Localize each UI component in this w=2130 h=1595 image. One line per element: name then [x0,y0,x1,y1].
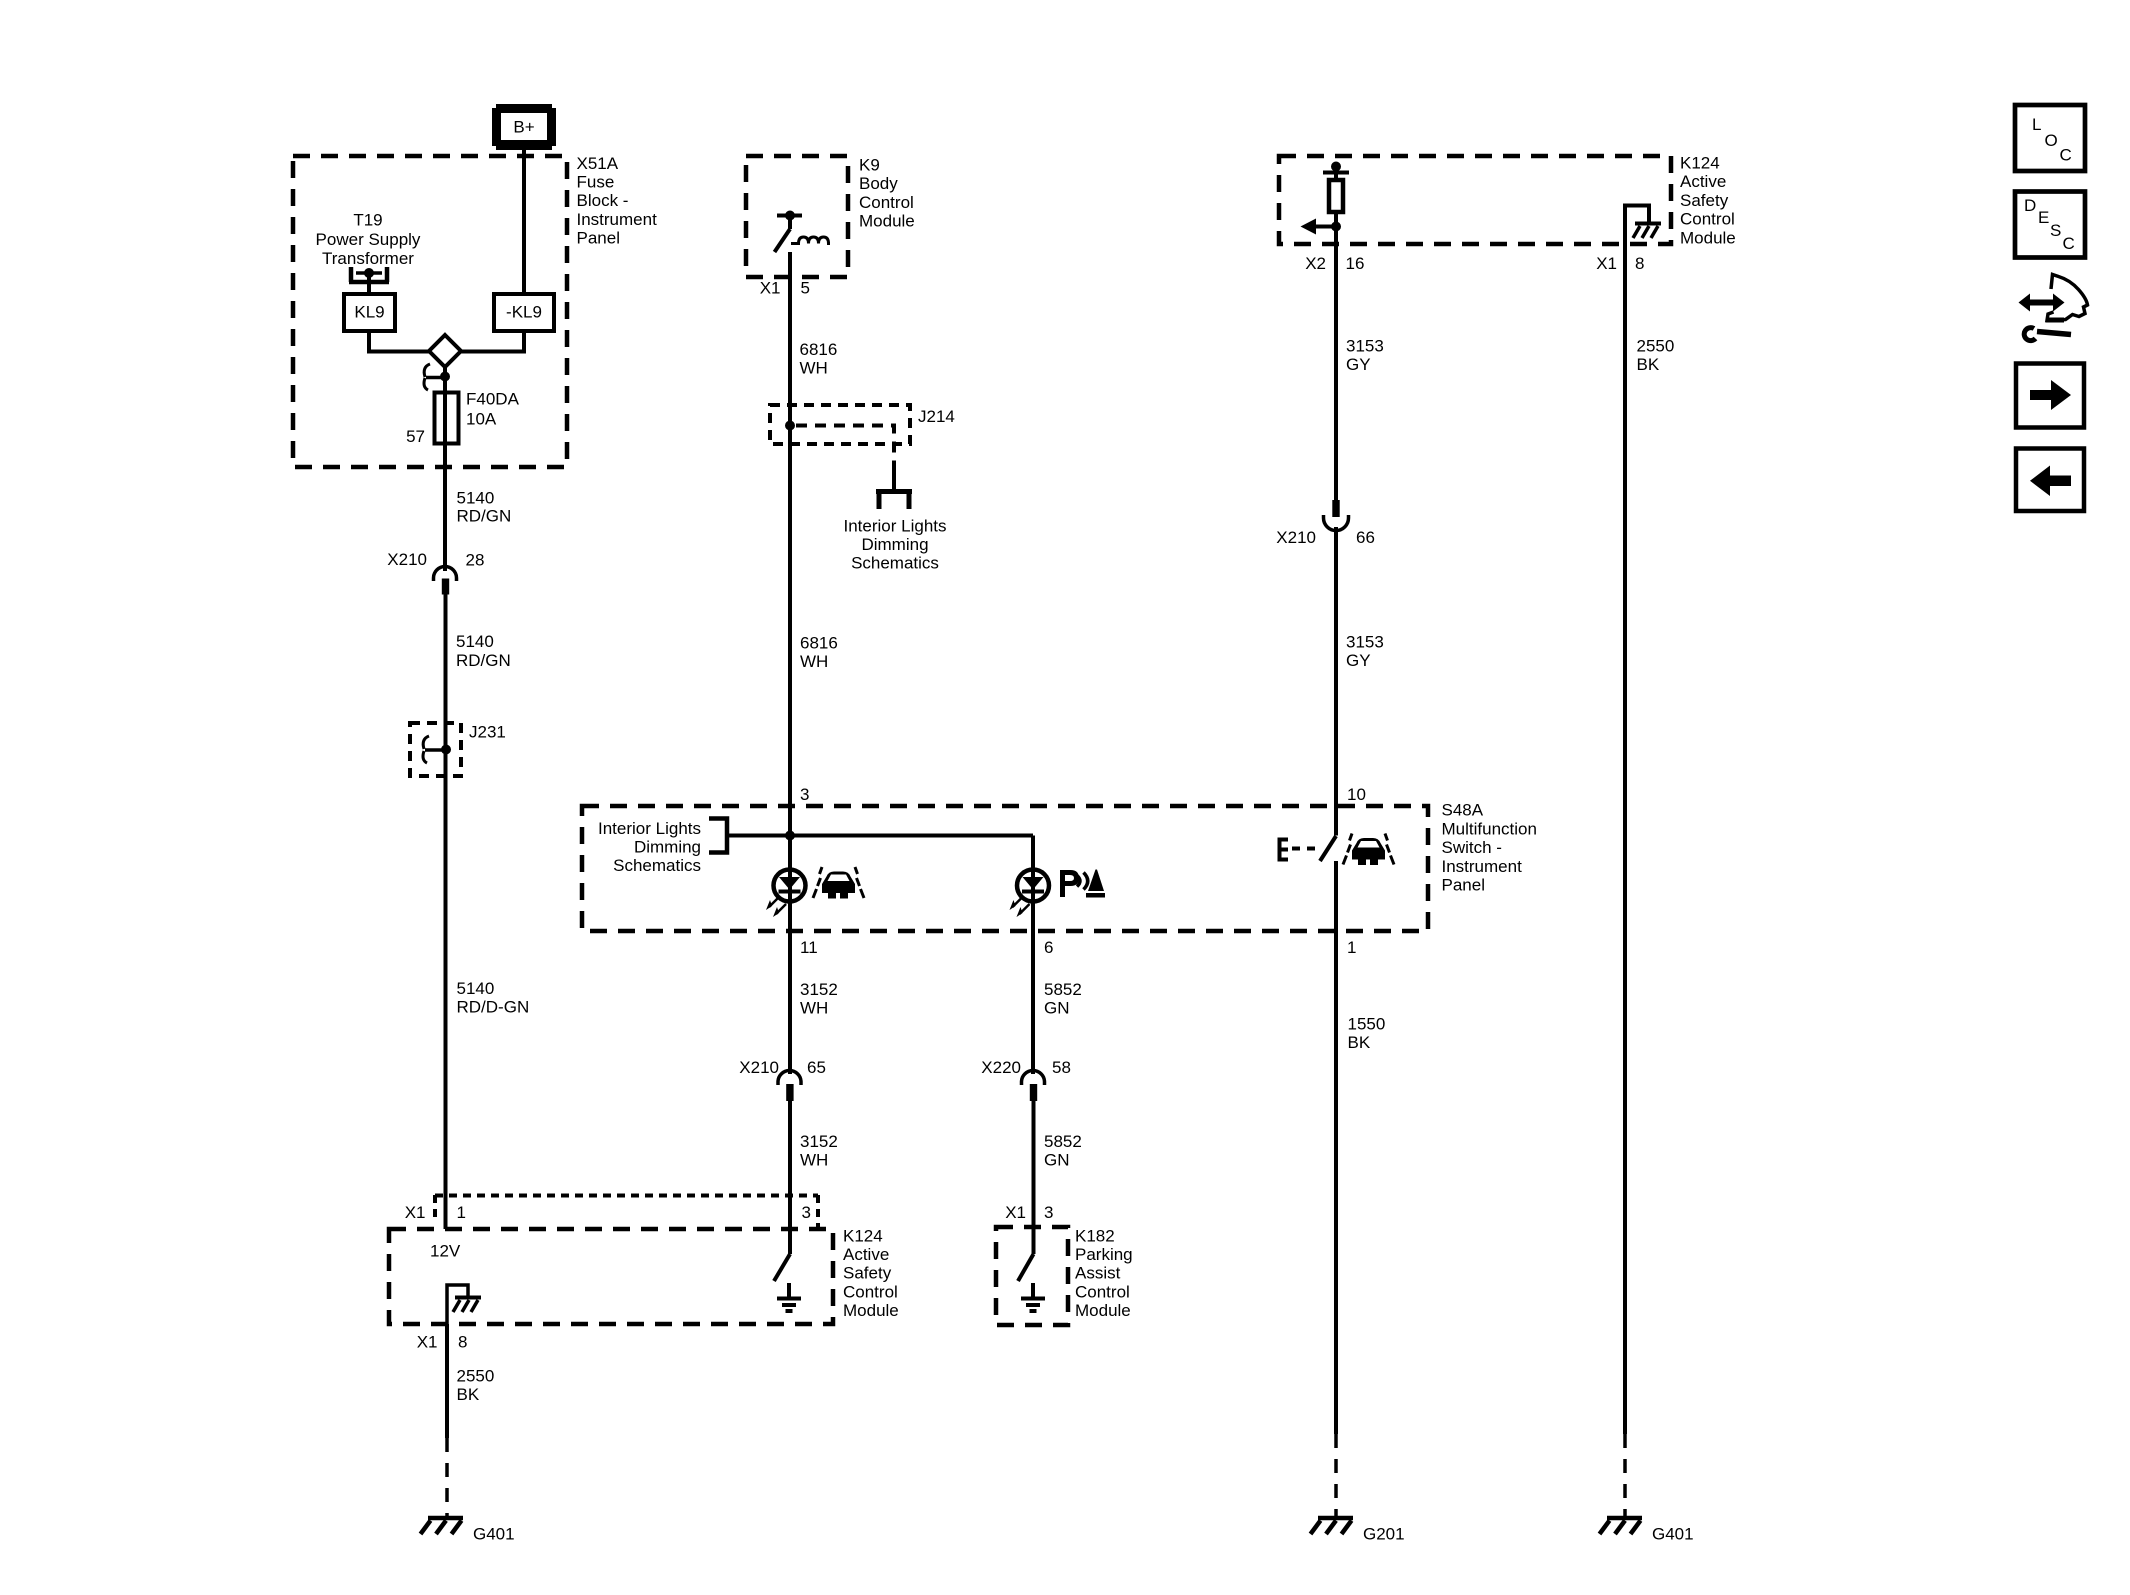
wire 6816 WH from K9 to X210-65 [788,252,792,1074]
svg-text:S: S [2050,221,2061,240]
svg-text:X1: X1 [1005,1203,1026,1222]
wire 5852 GN upper [1031,931,1035,1074]
K182 internal switch to ground [1018,1227,1034,1281]
splice J231 dashed box [410,723,461,776]
S48A label [1442,801,1537,895]
svg-text:6: 6 [1044,938,1053,957]
svg-text:12V: 12V [430,1242,461,1261]
svg-text:BK: BK [1348,1033,1371,1052]
svg-text:J231: J231 [469,723,506,742]
svg-text:X210: X210 [739,1058,779,1077]
svg-text:X220: X220 [981,1058,1021,1077]
svg-text:Block -: Block - [577,191,629,210]
svg-text:WH: WH [800,358,828,377]
S48A multifunction switch dashed box [582,806,1428,931]
splice clip J231 [423,736,446,763]
svg-text:Schematics: Schematics [851,554,939,573]
wire 3153 GY upper [1334,244,1338,500]
bracket for dimming reference [709,819,727,853]
svg-text:16: 16 [1346,254,1365,273]
svg-text:K9: K9 [859,156,880,175]
switch actuator bracket [1280,840,1289,860]
wire X210-28 down to K124 [444,594,448,1229]
svg-text:X1: X1 [405,1203,426,1222]
inline connector X220 pin 58 [981,1058,1071,1101]
svg-text:C: C [2063,234,2075,253]
svg-text:GN: GN [1044,1151,1070,1170]
off-page fork to interior lights dimming schematics [876,468,912,509]
wire from B+ down to -KL9 [522,150,526,296]
svg-text:5140: 5140 [457,979,495,998]
svg-text:Safety: Safety [843,1264,892,1283]
svg-text:J214: J214 [918,407,955,426]
fuse F40DA 10A [435,393,459,444]
LED indicator (parking assist) [1010,870,1050,918]
transformer T19 symbol [349,267,389,296]
K124 label (top right) [1680,154,1736,248]
svg-text:5140: 5140 [456,632,494,651]
splice junction dot J231 [441,745,451,755]
X51A label [577,154,658,247]
svg-text:X1: X1 [1596,254,1617,273]
K124 internal chassis ground link [1625,206,1649,1435]
svg-text:K182: K182 [1075,1227,1115,1246]
svg-text:Panel: Panel [1442,876,1485,895]
dashed wire to G401 [445,1438,449,1516]
svg-text:3153: 3153 [1346,337,1384,356]
diamond distribution node [429,335,461,367]
svg-text:8: 8 [458,1333,467,1352]
svg-text:X51A: X51A [577,154,619,173]
ground G401 (right) [1600,1518,1694,1544]
internal dimming feed wire [727,834,1033,838]
svg-text:Control: Control [1680,210,1735,229]
svg-text:1: 1 [1347,938,1356,957]
svg-text:WH: WH [800,1151,828,1170]
wire diamond to fuse [443,365,447,571]
svg-text:Dimming: Dimming [634,838,701,857]
wire KL9 to diamond [369,331,429,352]
svg-text:Parking: Parking [1075,1245,1133,1264]
forward arrow icon box [2016,364,2084,428]
svg-text:X1: X1 [417,1333,438,1352]
svg-text:Instrument: Instrument [1442,857,1523,876]
svg-text:11: 11 [800,938,818,957]
LED indicator (lane keep) [766,870,806,918]
svg-text:Safety: Safety [1680,191,1729,210]
svg-text:3: 3 [800,785,809,804]
K124 active safety control module dashed box (top) [1279,156,1671,244]
svg-text:5852: 5852 [1044,1132,1082,1151]
S48A internal switch blade [1320,836,1336,861]
DESC icon box [2015,192,2085,258]
svg-text:Dimming: Dimming [861,535,928,554]
ground G401 (left) [421,1518,515,1544]
svg-text:Instrument: Instrument [577,210,658,229]
svg-text:C: C [2060,146,2072,165]
svg-text:BK: BK [1637,355,1660,374]
svg-text:Power Supply: Power Supply [316,230,421,249]
switch actuator dashes [1292,847,1315,851]
svg-text:BK: BK [457,1385,480,1404]
K124 internal pull-up resistor [1323,162,1349,245]
svg-text:S48A: S48A [1442,801,1484,820]
svg-text:Interior Lights: Interior Lights [844,517,947,536]
svg-text:G201: G201 [1363,1525,1405,1544]
junction dot on dimming wire [785,831,795,841]
svg-text:WH: WH [800,999,828,1018]
svg-text:Module: Module [859,212,915,231]
svg-text:K124: K124 [843,1227,883,1246]
svg-text:X210: X210 [387,550,427,569]
internal signal arrow [1301,219,1342,235]
svg-text:28: 28 [466,551,485,570]
svg-text:B+: B+ [513,118,534,137]
svg-text:Active: Active [843,1245,889,1264]
splice clip at fuse feed [424,364,445,390]
svg-text:Control: Control [1075,1282,1130,1301]
svg-text:Body: Body [859,174,898,193]
wire 3153 GY lower to S48A switch [1334,527,1338,836]
svg-text:3: 3 [802,1203,811,1222]
svg-text:Multifunction: Multifunction [1442,819,1537,838]
wire -KL9 to diamond [461,331,524,352]
svg-text:Assist: Assist [1075,1264,1121,1283]
svg-text:10A: 10A [466,410,497,429]
svg-text:E: E [2038,208,2049,227]
inline connector X210 pin 66 (flipped) [1276,500,1375,547]
K124 label [843,1227,899,1320]
wire 5852 GN lower [1032,1101,1036,1227]
battery terminal B+ [492,104,556,150]
svg-text:Switch -: Switch - [1442,838,1502,857]
svg-text:D: D [2024,196,2036,215]
lane keep assist car icon [813,867,864,899]
svg-text:T19: T19 [353,211,382,230]
K9 body control module dashed box [746,156,848,277]
svg-text:5: 5 [801,279,810,298]
svg-text:X2: X2 [1305,254,1326,273]
svg-text:L: L [2032,115,2041,134]
svg-text:Transformer: Transformer [322,249,414,268]
dashed wire to G201 [1334,1434,1338,1516]
wire 1550 BK [1334,861,1338,1434]
K9 internal coil [791,237,830,244]
LOC icon box [2015,105,2085,171]
svg-text:G401: G401 [1652,1525,1694,1544]
interior lights dimming reference text in S48A [598,819,701,875]
svg-text:Module: Module [1680,228,1736,247]
K9 label [859,156,915,231]
svg-text:O: O [2045,131,2058,150]
terminal KL9 box [344,294,395,331]
svg-text:3152: 3152 [800,980,838,999]
back arrow icon box [2016,449,2084,512]
svg-text:6816: 6816 [800,634,838,653]
svg-text:5852: 5852 [1044,980,1082,999]
svg-text:Active: Active [1680,172,1726,191]
svg-text:-KL9: -KL9 [506,303,542,322]
svg-text:3: 3 [1044,1203,1053,1222]
wire 2550 BK down from K124 [445,1324,449,1438]
K124 active safety control module dashed box (bottom) [389,1229,833,1324]
chassis ground inside K124 [453,1298,481,1313]
svg-text:3152: 3152 [800,1132,838,1151]
K124 connector face X1 dotted line [435,1195,818,1229]
svg-text:8: 8 [1635,254,1644,273]
svg-text:X1: X1 [760,279,781,298]
svg-text:5140: 5140 [457,489,495,508]
svg-text:GY: GY [1346,355,1371,374]
chassis ground inside K124 top [1633,224,1661,239]
IEC ground inside K124 [777,1283,801,1311]
connector view icon (double arrow with wrench) [2019,275,2088,341]
inline connector X210 pin 28 [387,550,484,595]
svg-text:1: 1 [457,1203,466,1222]
svg-text:Control: Control [859,193,914,212]
svg-text:GN: GN [1044,999,1070,1018]
junction dot J214 [785,421,795,431]
K182 label [1075,1227,1133,1320]
svg-text:10: 10 [1347,785,1366,804]
ground G201 [1311,1518,1405,1544]
svg-text:Schematics: Schematics [613,856,701,875]
svg-text:57: 57 [406,427,425,446]
splice J214 dashed box [770,405,910,444]
svg-text:RD/D-GN: RD/D-GN [457,998,530,1017]
K124 internal switch to ground [774,1229,790,1281]
inline connector X210 pin 65 [739,1058,826,1101]
svg-text:G401: G401 [473,1525,515,1544]
svg-text:RD/GN: RD/GN [456,651,511,670]
internal ground wire of K124 pin 8 [447,1285,468,1324]
dashed wire to G401 right [1623,1434,1627,1516]
wire 3152 WH lower [788,1101,792,1229]
svg-text:Module: Module [1075,1301,1131,1320]
svg-text:WH: WH [800,652,828,671]
svg-text:2550: 2550 [457,1367,495,1386]
fuse block X51A dashed box [293,156,567,467]
off-page reference text [844,517,947,573]
svg-text:3153: 3153 [1346,633,1384,652]
svg-text:Control: Control [843,1282,898,1301]
svg-text:F40DA: F40DA [466,390,520,409]
svg-text:6816: 6816 [800,340,838,359]
svg-text:Fuse: Fuse [577,173,615,192]
svg-text:65: 65 [807,1058,826,1077]
lane keep assist car icon (switch) [1343,834,1394,866]
svg-text:Panel: Panel [577,228,620,247]
svg-text:X210: X210 [1276,528,1316,547]
svg-text:Interior Lights: Interior Lights [598,819,701,838]
K9 internal driver switch [775,211,803,253]
dashed branch wire from J214 [796,426,894,471]
wire from dimming wire through LED2 to pin 6 [1031,836,1035,932]
svg-text:58: 58 [1052,1058,1071,1077]
svg-text:66: 66 [1356,528,1375,547]
T19 power supply transformer label [316,211,421,269]
K182 parking assist control module dashed box [996,1227,1068,1325]
svg-text:KL9: KL9 [354,303,384,322]
svg-text:Module: Module [843,1301,899,1320]
svg-text:GY: GY [1346,651,1371,670]
terminal -KL9 box [494,294,554,331]
junction dot above fuse [440,372,450,382]
svg-text:RD/GN: RD/GN [457,507,512,526]
svg-text:1550: 1550 [1348,1015,1386,1034]
IEC ground inside K182 [1021,1283,1045,1311]
parking assist icon P with waves and cone [1060,870,1105,898]
svg-text:K124: K124 [1680,154,1720,173]
svg-text:2550: 2550 [1637,337,1675,356]
